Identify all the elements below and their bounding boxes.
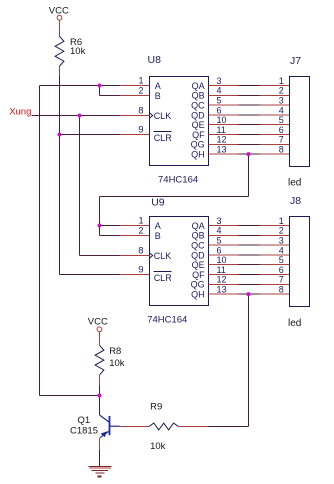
J7 pin 5 (260, 115, 290, 125)
wire U9 QG to J8 pin 7 (239, 283, 260, 285)
svg-text:QE: QE (192, 120, 205, 130)
svg-text:10k: 10k (109, 358, 125, 369)
U9 pin 11 QF (192, 265, 238, 280)
svg-text:VCC: VCC (88, 316, 108, 327)
connector J8 body (290, 217, 310, 307)
svg-text:U8: U8 (148, 54, 162, 66)
U8 pin 6 QD (191, 105, 238, 120)
resistor R8 (95, 338, 125, 385)
svg-text:2: 2 (279, 86, 284, 96)
svg-text:8: 8 (138, 105, 143, 116)
wire U9 QB to J8 pin 2 (239, 234, 260, 236)
svg-text:2: 2 (138, 85, 143, 95)
wire U8 QC to J7 pin 3 (239, 104, 260, 106)
J8 pin 4 (260, 245, 290, 255)
U8 pin 13 QH (191, 145, 238, 160)
U9 pin 10 QE (192, 255, 239, 270)
J7 pin 7 (260, 135, 290, 145)
svg-text:CLR: CLR (154, 133, 173, 143)
U8 pin 9 CLR (120, 124, 173, 143)
U8 pin 3 QA (192, 76, 239, 91)
J7 pin 6 (260, 125, 290, 135)
svg-text:4: 4 (279, 105, 284, 115)
svg-text:QF: QF (192, 270, 205, 280)
svg-text:QC: QC (191, 241, 205, 251)
svg-text:QC: QC (191, 101, 205, 111)
svg-text:10k: 10k (150, 441, 166, 452)
svg-text:10k: 10k (70, 46, 86, 57)
wire U8 QF to J7 pin 6 (239, 134, 260, 136)
svg-text:CLK: CLK (154, 111, 172, 121)
J8 pin 5 (260, 255, 290, 265)
U8 pin 4 QB (192, 86, 239, 101)
svg-text:1: 1 (138, 75, 143, 85)
svg-text:3: 3 (217, 76, 222, 86)
wire U9 QC to J8 pin 3 (239, 244, 260, 246)
op-amp U9 74HC164 body (150, 217, 209, 306)
ground (89, 467, 112, 477)
wire R8 to Q1 collector (99, 385, 101, 415)
J8 pin 1 (260, 216, 290, 226)
U9 pin 4 QB (192, 226, 239, 241)
svg-text:3: 3 (279, 96, 284, 106)
svg-text:led: led (288, 318, 301, 329)
resistor R9 (120, 401, 209, 452)
svg-text:7: 7 (279, 275, 284, 285)
svg-text:R9: R9 (150, 401, 162, 412)
U8 pin 11 QF (192, 125, 238, 140)
svg-text:1: 1 (279, 216, 284, 226)
svg-text:12: 12 (217, 135, 227, 145)
power symbol VCC (top) (49, 6, 69, 26)
svg-text:4: 4 (217, 86, 222, 96)
svg-text:74HC164: 74HC164 (158, 174, 198, 185)
svg-text:12: 12 (217, 275, 227, 285)
wire U8 A/B input (40, 86, 120, 96)
wire U9 QF to J8 pin 6 (239, 274, 260, 276)
U9 pin 5 QC (191, 236, 238, 251)
svg-text:5: 5 (217, 96, 222, 106)
U8 pin 8 CLK (120, 105, 172, 121)
svg-text:11: 11 (217, 265, 226, 275)
junction U9 QH tap (247, 292, 251, 296)
wire U8 QD to J7 pin 4 (239, 114, 260, 116)
U9 pin 6 QD (191, 245, 238, 260)
svg-text:QH: QH (191, 290, 205, 300)
svg-text:8: 8 (279, 285, 284, 295)
U8 pin 2 B (120, 85, 161, 101)
wire feedback column (40, 86, 100, 396)
U8 pin 10 QE (192, 115, 239, 130)
svg-text:QD: QD (191, 110, 205, 120)
wire U9 CLR branch (60, 274, 120, 276)
wire cascade U8 QH down to U9 inputs (100, 154, 249, 235)
svg-text:QG: QG (191, 140, 205, 150)
svg-text:QA: QA (192, 221, 205, 231)
svg-text:8: 8 (138, 245, 143, 256)
svg-text:3: 3 (217, 216, 222, 226)
svg-text:1: 1 (279, 76, 284, 86)
U8 pin 1 A (120, 75, 161, 91)
svg-text:C1815: C1815 (70, 426, 98, 437)
svg-text:led: led (288, 178, 301, 189)
J7 pin 3 (260, 96, 290, 106)
J7 pin 8 (260, 145, 290, 155)
U9 pin 9 CLR (120, 264, 173, 283)
U8 pin 5 QC (191, 96, 238, 111)
wire U9 QH to J8 pin 8 (239, 293, 260, 295)
J8 pin 7 (260, 275, 290, 285)
U9 pin 2 B (120, 225, 161, 241)
wire Q1 emitter to ground (99, 438, 101, 467)
svg-text:QB: QB (192, 231, 205, 241)
U9 pin 8 CLK (120, 245, 172, 261)
svg-text:4: 4 (279, 245, 284, 255)
svg-text:9: 9 (138, 264, 143, 275)
wire U8 QG to J7 pin 7 (239, 143, 260, 145)
U9 pin 1 A (120, 215, 161, 231)
wire U9 QA to J8 pin 1 (239, 225, 260, 227)
junction U9 A/B node (98, 224, 102, 228)
svg-text:8: 8 (279, 145, 284, 155)
svg-text:2: 2 (279, 226, 284, 236)
J7 pin 1 (260, 76, 290, 86)
svg-text:A: A (155, 221, 161, 231)
J8 pin 8 (260, 285, 290, 295)
svg-text:5: 5 (279, 115, 284, 125)
svg-text:J7: J7 (290, 55, 301, 67)
junction U8 A/B node (98, 84, 102, 88)
svg-text:74HC164: 74HC164 (147, 314, 187, 325)
wire U9 QD to J8 pin 4 (239, 254, 260, 256)
svg-text:QG: QG (191, 280, 205, 290)
J8 pin 3 (260, 236, 290, 246)
wire U8 CLR branch (60, 134, 120, 136)
wire Xung to U8 CLK (32, 115, 120, 117)
junction CLR node (58, 133, 62, 137)
U9 pin 12 QG (191, 275, 239, 290)
svg-text:B: B (155, 91, 161, 101)
svg-text:10: 10 (217, 255, 227, 265)
U9 pin 3 QA (192, 216, 239, 231)
J8 pin 6 (260, 265, 290, 275)
transistor Q1 C1815 (70, 415, 120, 438)
svg-text:13: 13 (217, 285, 227, 295)
wire U8 QB to J7 pin 2 (239, 94, 260, 96)
svg-text:2: 2 (138, 225, 143, 235)
resistor R6 (55, 26, 85, 76)
wire Xung column down to U9 CLK (79, 116, 81, 256)
wire U9 CLK branch (80, 255, 120, 257)
svg-text:10: 10 (217, 115, 227, 125)
svg-text:5: 5 (217, 236, 222, 246)
svg-text:5: 5 (279, 255, 284, 265)
svg-text:9: 9 (138, 124, 143, 135)
U8 pin 12 QG (191, 135, 239, 150)
svg-text:J8: J8 (290, 195, 301, 207)
svg-text:QD: QD (191, 250, 205, 260)
wire U8 QA to J7 pin 1 (239, 85, 260, 87)
op-amp U8 74HC164 body (150, 77, 209, 166)
junction U8 QH tap (247, 152, 251, 156)
connector J7 body (290, 77, 310, 167)
svg-text:6: 6 (217, 245, 222, 255)
junction collector/feedback node (98, 394, 102, 398)
wire U8 QH to J7 pin 8 (239, 153, 260, 155)
svg-text:R8: R8 (109, 346, 121, 357)
svg-text:13: 13 (217, 145, 227, 155)
wire U9 QE to J8 pin 5 (239, 264, 260, 266)
svg-text:Xung: Xung (9, 106, 31, 117)
svg-text:4: 4 (217, 226, 222, 236)
svg-text:6: 6 (279, 265, 284, 275)
svg-text:6: 6 (217, 105, 222, 115)
svg-text:QA: QA (192, 81, 205, 91)
svg-text:6: 6 (279, 125, 284, 135)
wire CLR pull-up column (59, 76, 61, 275)
svg-text:3: 3 (279, 236, 284, 246)
svg-text:QE: QE (192, 260, 205, 270)
svg-text:A: A (155, 81, 161, 91)
svg-text:CLK: CLK (154, 251, 172, 261)
svg-text:B: B (155, 231, 161, 241)
svg-text:Q1: Q1 (78, 415, 91, 426)
U9 pin 13 QH (191, 285, 238, 300)
wire U9 QH down to R9 (209, 294, 249, 426)
J7 pin 2 (260, 86, 290, 96)
J8 pin 2 (260, 226, 290, 236)
svg-text:1: 1 (138, 215, 143, 225)
svg-text:QH: QH (191, 150, 205, 160)
svg-text:QB: QB (192, 91, 205, 101)
svg-text:11: 11 (217, 125, 226, 135)
svg-text:QF: QF (192, 130, 205, 140)
J7 pin 4 (260, 105, 290, 115)
svg-text:CLR: CLR (154, 273, 173, 283)
svg-text:7: 7 (279, 135, 284, 145)
svg-text:U9: U9 (151, 197, 165, 209)
junction Xung node (78, 114, 82, 118)
power symbol VCC (bottom) (88, 316, 108, 338)
wire U8 QE to J7 pin 5 (239, 124, 260, 126)
